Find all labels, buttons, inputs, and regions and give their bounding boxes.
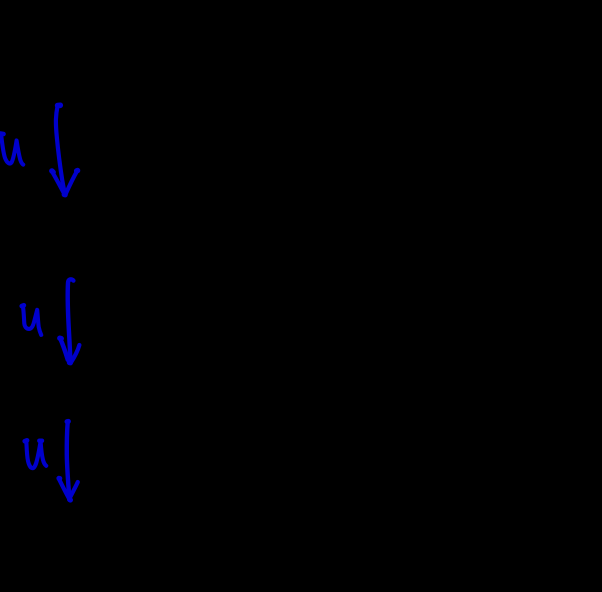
voltage arrow u2 head [60,338,68,360]
voltage arrow u3 shaft [59,421,78,500]
voltage arrow u2 shaft [60,279,80,362]
voltage label u3 [25,440,46,468]
voltage label u1 [1,134,24,165]
voltage arrow u1 head [52,171,65,194]
voltage arrow u1 shaft [52,105,78,195]
voltage label u2 [22,305,41,335]
voltage arrow u3 head [59,478,69,498]
